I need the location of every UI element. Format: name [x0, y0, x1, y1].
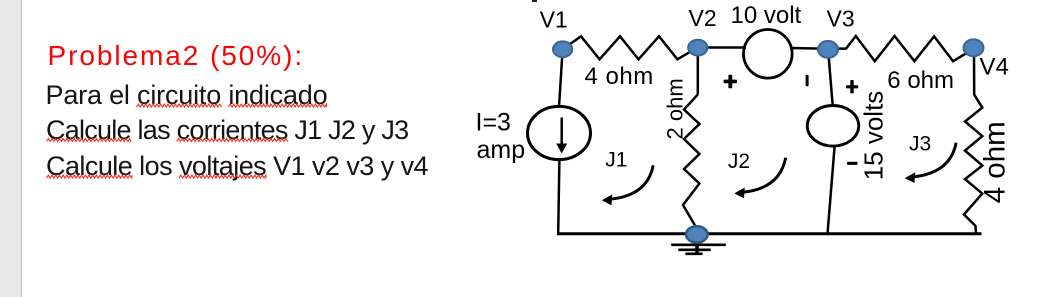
label V1: [540, 7, 568, 33]
voltage source 10 volt: [744, 30, 793, 79]
label 10 volt: [731, 2, 802, 29]
current source I=3 amp: [528, 106, 591, 159]
spellcheck squiggle under circuito: [137, 104, 222, 107]
left gray sidebar: [0, 0, 22, 297]
label 2 ohm (rotated): [663, 78, 688, 139]
svg-text:I=3: I=3: [476, 109, 511, 137]
text line Para el circuito indicado: [46, 80, 328, 111]
stray mark top edge: [532, 0, 537, 2]
resistor 6 ohm (top right): [838, 36, 973, 61]
spellcheck squiggle under corrientes: [177, 139, 288, 142]
label V2: [689, 5, 717, 31]
svg-text:J1: J1: [605, 149, 627, 172]
svg-text:6 ohm: 6 ohm: [887, 67, 954, 94]
svg-text:4 ohm: 4 ohm: [585, 63, 654, 90]
label J2: [728, 150, 750, 173]
spellcheck squiggle under indicado: [228, 104, 326, 107]
label J3: [909, 132, 931, 155]
label 6 ohm: [887, 67, 954, 94]
svg-text:V4: V4: [980, 53, 1009, 80]
resistor 4 ohm (top left): [563, 36, 698, 59]
label 4 ohm: [585, 63, 654, 90]
label V4: [980, 53, 1009, 80]
label V3: [827, 6, 855, 32]
wire V3 to 15 volts source: [829, 56, 833, 106]
wire current source to bottom: [558, 160, 559, 233]
svg-text:V3: V3: [827, 6, 855, 32]
plus sign 15 volts: [846, 80, 858, 93]
label 4 ohm right (rotated): [978, 121, 1011, 203]
svg-text:J2: J2: [728, 150, 750, 173]
svg-text:2 ohm: 2 ohm: [663, 78, 688, 139]
minus sign 10 volt (vertical tick): [806, 75, 809, 87]
svg-text:J3: J3: [909, 132, 931, 155]
current arrow J3: [905, 143, 956, 183]
svg-text:V2: V2: [689, 5, 717, 31]
plus sign 10 volt: [724, 75, 737, 89]
current arrow J2: [734, 158, 785, 199]
text line Calcule las corrientes J1 J2 y J3: [46, 115, 408, 146]
bottom wire: [557, 232, 982, 235]
spellcheck squiggle under voltajes: [179, 175, 266, 178]
svg-text:V1: V1: [540, 7, 568, 33]
ground node: [686, 226, 708, 242]
resistor 2 ohm (vertical): [683, 95, 699, 229]
label 15 volts (rotated): [859, 91, 889, 181]
node V2: [688, 40, 707, 56]
title Problema2 (50%):: [48, 40, 305, 72]
voltage source 15 volts: [807, 106, 858, 147]
minus sign 15 volts: [847, 162, 858, 165]
resistor 4 ohm (right vertical): [964, 95, 982, 234]
node V4: [964, 39, 984, 56]
node V3: [818, 41, 838, 58]
spellcheck squiggle under Calcule: [47, 139, 131, 142]
label amp: [477, 136, 526, 164]
wire V2 down: [697, 54, 700, 95]
wire V2 to 10 volt source: [700, 46, 746, 49]
ground: [671, 240, 726, 254]
svg-text:10 volt: 10 volt: [731, 2, 802, 29]
node V1: [553, 41, 572, 57]
text line Calcule los voltajes V1 v2 v3 y v4: [46, 151, 428, 182]
wire 15 volts source to bottom: [828, 146, 835, 232]
label I=3: [476, 109, 511, 137]
current arrow J1: [602, 165, 653, 205]
svg-text:amp: amp: [477, 136, 526, 164]
wire V4 down: [973, 54, 976, 95]
svg-text:4 ohm: 4 ohm: [978, 121, 1011, 203]
svg-text:15 volts: 15 volts: [859, 91, 889, 181]
label J1: [605, 149, 627, 172]
wire V1 to current source: [559, 53, 562, 107]
spellcheck squiggle under Calcule2: [47, 175, 133, 178]
wire 10 volt source to V3: [791, 47, 829, 50]
